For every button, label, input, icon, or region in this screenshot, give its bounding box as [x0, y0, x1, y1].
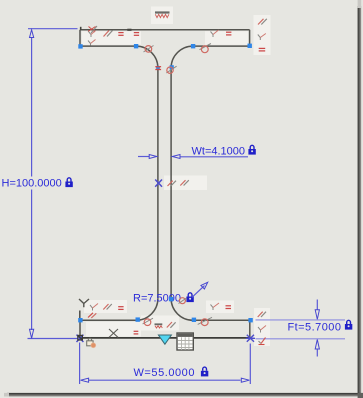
W arrow right [241, 378, 249, 382]
Y axis label [79, 299, 89, 307]
corner tick top-left [80, 27, 82, 30]
endpoint square left fillet tangent [134, 44, 138, 48]
bottom flange right edge [249, 320, 251, 338]
H dimension extension line bottom [28, 338, 79, 340]
svg-text:R=7.5000: R=7.5000 [133, 293, 181, 305]
endpoint square top-right flange [248, 44, 252, 48]
collinear glyph right bottom [259, 338, 266, 345]
Y axis stem [79, 311, 81, 321]
fillet top-right [171, 46, 193, 68]
profile outline of T-beam [80, 30, 250, 338]
endpoint square bottom left fillet [136, 317, 140, 321]
web left line [157, 68, 159, 298]
W lock icon [201, 367, 208, 376]
fix constraint glyph top center [155, 13, 170, 18]
fillet bottom-left [136, 298, 158, 320]
coincident glyph lower [88, 40, 96, 46]
parallel glyph bottom left [103, 304, 112, 310]
blue midpoint X on web [155, 180, 162, 187]
H dimension line [31, 38, 33, 331]
coincident glyph right mid [258, 326, 266, 333]
tangent glyph web bottom right [179, 298, 187, 304]
svg-text:Wt=4.1000: Wt=4.1000 [192, 146, 246, 158]
tangent glyph top-right fillet [200, 44, 211, 53]
bottom flange top edge left [80, 319, 136, 321]
coincident glyph bottom right flange [211, 303, 220, 310]
parallel glyph mid web 2 [180, 180, 189, 185]
endpoint square web bottom tangent [169, 297, 173, 301]
H dimension extension line top [28, 28, 78, 30]
coincident glyph bottom left 1 [90, 304, 98, 311]
fillet top-left [136, 46, 158, 68]
svg-text:H=100.0000: H=100.0000 [2, 178, 62, 190]
endpoint square right fillet tangent [191, 44, 195, 48]
origin padlock glyph [87, 338, 96, 347]
Ft lock icon [345, 320, 352, 329]
tangent glyph bottom-right fillet [198, 317, 212, 325]
Ft dimension extension line bottom [256, 338, 346, 340]
right outside panel: parallel glyph [258, 19, 267, 25]
dark X point marker bottom flange [109, 329, 118, 337]
glyph panel bottom fillet left [141, 316, 179, 331]
right outside panel: coincident glyph [258, 34, 266, 41]
parallel glyph mid web 1 [168, 181, 177, 186]
top edge [80, 29, 250, 31]
endpoint square bottom flange right corner [248, 318, 252, 322]
equal glyph bottom right flange [226, 306, 232, 309]
Ft dimension extension line top [256, 319, 346, 321]
bottom flange left edge [79, 320, 81, 338]
tangent glyph bottom-left fillet [143, 318, 153, 325]
parallel glyph below (red) [88, 313, 96, 318]
glyph panel mid web [164, 176, 207, 191]
left flange edge [79, 30, 81, 46]
glyph panel top center fix [151, 7, 173, 25]
R lock icon [186, 293, 193, 302]
svg-text:Ft=5.7000: Ft=5.7000 [288, 322, 342, 334]
H arrow up [30, 30, 34, 38]
W dimension extension line left [79, 343, 81, 385]
top flange underside left [80, 45, 136, 47]
corner star bottom-right [246, 335, 255, 342]
H arrow down [30, 329, 34, 338]
coincident glyph below corner [89, 31, 96, 38]
endpoint square bottom right fillet [192, 318, 196, 322]
fix glyph bottom flange [155, 324, 163, 328]
Wt lock icon [248, 145, 255, 154]
glyph panel above bottom flange left [84, 300, 127, 313]
tangent glyph web top right [166, 66, 176, 73]
R leader line [192, 286, 205, 298]
parallel glyph bottom fillet left [167, 322, 176, 328]
web right line [170, 68, 172, 298]
right flange edge [249, 30, 251, 46]
coincident glyph top flange right [211, 30, 219, 37]
endpoint dot web-top-left [156, 66, 160, 70]
equal glyph bottom left [118, 307, 123, 310]
equal glyph top flange 2 [134, 33, 139, 36]
bottom flange top edge right [193, 319, 250, 321]
svg-text:W=55.0000: W=55.0000 [134, 367, 196, 379]
equal glyph top flange right [226, 32, 231, 35]
right outside panel: equal glyph [259, 48, 266, 51]
glyph panel above bottom flange right [206, 301, 234, 314]
endpoint square web-top-right [170, 65, 174, 69]
glyph panel top flange right [205, 31, 248, 45]
W dimension extension line right [249, 344, 251, 385]
red cross glyph at top-left corner [88, 26, 97, 33]
bottom edge [80, 337, 250, 339]
equal glyph web top [155, 67, 161, 70]
origin marker [77, 335, 84, 342]
glyph panel bottom flange inner left [86, 322, 141, 337]
equal glyph bottom flange mid [134, 331, 139, 334]
parallel glyph right of Ft top [258, 312, 266, 317]
Wt dimension left arrow [138, 156, 149, 158]
Ft arrow bottom [316, 349, 318, 357]
window border right [358, 6, 362, 395]
R leader arrow [201, 282, 208, 289]
fillet bottom-right [171, 298, 193, 320]
H lock icon [65, 178, 72, 187]
endpoint square top-left flange [78, 44, 82, 48]
glyph panel top flange left [82, 31, 141, 45]
Wt dimension leader/underline [181, 156, 249, 158]
glyph panel right of bottom flange [254, 308, 270, 346]
W dimension line [89, 379, 241, 381]
endpoint square bottom flange left [78, 318, 82, 322]
tangent glyph top-left fillet [144, 46, 154, 53]
glyph panel right of top flange [254, 15, 271, 55]
cyan triangle marker [158, 335, 171, 344]
window corner shadow [358, 393, 363, 398]
parallel glyph top flange left [104, 31, 113, 37]
spreadsheet table icon [177, 333, 193, 350]
point marker tick on top edge [127, 29, 131, 31]
equal glyph top flange 1 [118, 33, 123, 36]
top flange underside right [193, 45, 250, 47]
Wt right arrow [172, 155, 180, 159]
W arrow left [81, 378, 89, 382]
window border bottom [7, 393, 361, 397]
Ft arrow top [316, 300, 318, 311]
